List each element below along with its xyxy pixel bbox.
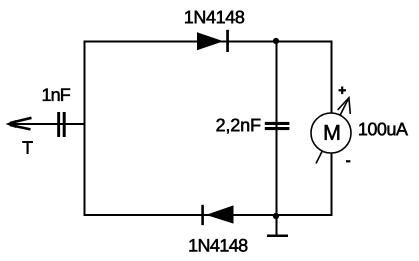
meter label M <box>325 125 339 140</box>
wire left bus <box>84 41 86 217</box>
label 1nF <box>43 89 70 101</box>
plus polarity mark <box>339 87 347 95</box>
capacitor 1nF <box>57 112 65 137</box>
label 2,2nF <box>217 119 261 134</box>
label 1N4148 bottom <box>190 239 248 252</box>
wire right bus <box>331 41 333 217</box>
ground <box>267 215 288 236</box>
meter needle <box>316 98 349 164</box>
minus polarity mark <box>346 160 350 162</box>
antenna arrow T <box>6 118 32 130</box>
diode D2 1N4148 (bottom, pointing left) <box>201 205 233 225</box>
meter needle arrowhead <box>338 98 351 114</box>
wire antenna input <box>8 123 84 125</box>
label 100uA <box>359 123 408 136</box>
node B (bottom junction) <box>273 213 279 219</box>
wire bottom rail <box>84 214 332 216</box>
label 1N4148 top <box>185 11 244 24</box>
label T <box>23 141 33 153</box>
node A (top junction) <box>273 38 279 44</box>
diode D1 1N4148 (top, pointing right) <box>197 30 229 52</box>
capacitor 2,2nF <box>265 122 290 130</box>
wire middle branch <box>276 41 278 215</box>
wire top rail <box>84 41 332 43</box>
meter M1 body <box>311 113 351 153</box>
